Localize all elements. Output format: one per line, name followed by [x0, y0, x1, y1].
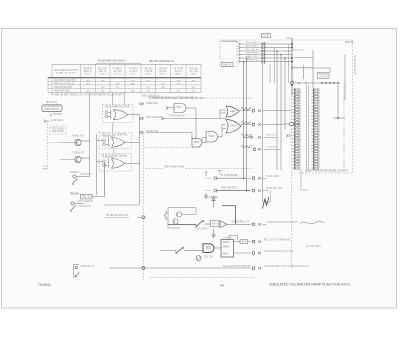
- input connector K3 slew with label: [139, 130, 158, 134]
- ground below buffer: [213, 229, 215, 233]
- svg-text:TO FROM MET: TO FROM MET: [72, 152, 84, 154]
- AND gate 4A6A1 (dark): [203, 244, 221, 253]
- power stub for diode rows: [205, 172, 207, 176]
- switch S3 (bottom left): [74, 265, 95, 279]
- dashed card bottom boundary: [150, 277, 254, 279]
- dashed wire, left boundary: [47, 120, 49, 168]
- wire: vertical bus x=96.5: [96, 134, 98, 195]
- svg-text:SLEW: SLEW: [161, 84, 165, 86]
- svg-text:COMP FAIL SLE: COMP FAIL SLE: [266, 187, 282, 190]
- long vertical wires from register to analog section: [243, 62, 245, 178]
- svg-text:TO F: TO F: [146, 87, 150, 89]
- svg-text:RAMP VOLT FUNC GE: RAMP VOLT FUNC GE: [54, 83, 74, 86]
- junction and connector row y=124.5: [252, 123, 255, 126]
- svg-text:FROM M: FROM M: [42, 169, 48, 171]
- svg-text:VOLT: VOLT: [209, 134, 215, 138]
- ramp output wire with label 4-5V: [227, 221, 298, 226]
- dashed card boundary P/O switch card: [50, 126, 66, 134]
- svg-text:AND OR NET: AND OR NET: [246, 44, 259, 47]
- svg-text:RAMP VOLT FUNC: RAMP VOLT FUNC: [54, 89, 70, 92]
- svg-text:FAIL SL: FAIL SL: [223, 63, 232, 66]
- dashed card boundary (top): [200, 97, 254, 99]
- transistor Q1: [60, 135, 90, 145]
- svg-text:GEN SEC SIM C: GEN SEC SIM C: [306, 246, 321, 248]
- svg-text:OUT IN: OUT IN: [114, 74, 121, 76]
- svg-text:PULSE RAMP: PULSE RAMP: [266, 175, 279, 178]
- ramp generator network: [165, 208, 197, 229]
- svg-text:SW R: SW R: [101, 80, 105, 82]
- input connector K1 with label: [139, 102, 158, 106]
- handwritten annotation line: [300, 222, 325, 224]
- FF output row 2: [234, 250, 294, 255]
- RAMP label box: [204, 221, 219, 227]
- input connector K2 comp-fail with label: [139, 116, 162, 120]
- pin 3 wire: [239, 50, 241, 53]
- svg-text:SEC SIM: SEC SIM: [204, 256, 213, 259]
- svg-text:OR N: OR N: [86, 80, 90, 82]
- AND gate 4A5: [206, 132, 222, 143]
- dashed card boundary (mid): [144, 147, 200, 149]
- output wire row 2 with handwritten label: [241, 122, 251, 125]
- wires table to gate boxes: [112, 93, 114, 105]
- connector strip P1: [294, 88, 296, 170]
- switch S2: [70, 200, 93, 212]
- svg-text:REL OU: REL OU: [160, 74, 167, 76]
- junction on left dashed boundary: [142, 216, 145, 219]
- svg-text:RAMP: RAMP: [194, 140, 199, 144]
- svg-text:RAMP VO: RAMP VO: [84, 70, 92, 73]
- pin 1 wire: [239, 43, 241, 46]
- ground under diode rows: [205, 194, 207, 197]
- svg-text:RAMP VOLT FU: RAMP VOLT FU: [81, 265, 95, 268]
- svg-text:SIM C: SIM C: [231, 124, 237, 128]
- svg-text:OR NET SW REL OUT IN TO FROM M: OR NET SW REL OUT IN TO FROM METER PUL: [264, 266, 310, 268]
- svg-text:SLEW TE: SLEW TE: [345, 42, 353, 44]
- wire corner top-left of register: [222, 40, 238, 42]
- input connector arrow (from panel): [44, 120, 46, 123]
- svg-text:TEST C: TEST C: [99, 74, 106, 76]
- svg-text:FUNC GEN SEC S: FUNC GEN SEC S: [221, 186, 238, 189]
- wire: gate1 output drop: [195, 108, 197, 140]
- svg-text:SW R: SW R: [101, 87, 105, 89]
- svg-text:SLEW T: SLEW T: [145, 74, 152, 76]
- svg-text:OR NET SW R: OR NET SW R: [79, 206, 91, 208]
- AND gate 4A1A3: [192, 138, 206, 148]
- wire top right area: [295, 57, 313, 59]
- wires from connector to right bus: [265, 43, 292, 45]
- svg-text:GEN SEC: GEN SEC: [53, 114, 62, 116]
- svg-text:FAIL SL: FAIL SL: [82, 196, 91, 199]
- svg-text:SW REL OUT IN TO F: SW REL OUT IN TO F: [56, 73, 77, 75]
- svg-text:CARD: CARD: [192, 90, 196, 93]
- svg-text:GEN SEC SIM: GEN SEC SIM: [246, 59, 258, 61]
- long vertical from connector strip: [262, 64, 264, 202]
- svg-text:VOLT F: VOLT F: [130, 74, 137, 76]
- svg-text:OR NET SW REL OUT: OR NET SW REL OUT: [106, 214, 128, 217]
- pin 6 wire: [239, 60, 241, 63]
- dashed module box 4A1A7 (pulse gate 3): [97, 154, 132, 172]
- svg-text:COMP FAIL S: COMP FAIL S: [51, 119, 64, 122]
- svg-text:SLEW T: SLEW T: [223, 241, 230, 244]
- meter symbol M1: [196, 256, 213, 261]
- svg-text:NET SW REL OUT I: NET SW REL OUT I: [231, 221, 250, 224]
- pin 5 wire: [239, 57, 241, 60]
- junction and connector row y=110.7: [252, 109, 255, 112]
- svg-text:REL OUT IN TO FROM ME: REL OUT IN TO FROM ME: [264, 239, 290, 242]
- connector strip P2: [313, 88, 315, 170]
- svg-text:CARD F: CARD F: [223, 246, 230, 249]
- output row 4 handwritten label: [241, 146, 256, 151]
- svg-text:TEST: TEST: [177, 91, 181, 93]
- svg-text:FAIL: FAIL: [131, 83, 135, 86]
- wires between strips: [306, 85, 308, 170]
- svg-text:PULSE RAMP VOLT FUNC G: PULSE RAMP VOLT FUNC G: [98, 59, 126, 62]
- FF feedback stub: [237, 236, 239, 240]
- svg-text:PULSE RA: PULSE RA: [70, 171, 79, 174]
- svg-text:AND O: AND O: [223, 253, 229, 256]
- svg-text:TEST CARD FF AND OR N: TEST CARD FF AND OR N: [54, 69, 78, 72]
- svg-text:NET S: NET S: [241, 241, 246, 244]
- svg-text:TEST CARD FF AND: TEST CARD FF AND: [164, 166, 184, 169]
- inter-box link wires: [111, 123, 113, 133]
- svg-text:GEN: GEN: [86, 91, 90, 93]
- flip-flop input switch: [160, 247, 203, 253]
- svg-text:TEST CARD F: TEST CARD F: [195, 228, 208, 231]
- svg-text:METE: METE: [177, 80, 181, 82]
- svg-text:FAIL SLEW TEST CARD FF: FAIL SLEW TEST CARD FF: [223, 265, 251, 268]
- right cluster wires: [337, 85, 339, 118]
- svg-text:METE: METE: [161, 87, 165, 89]
- wire: vertical bus x=89.5: [89, 93, 91, 177]
- connector row 3: [258, 136, 259, 138]
- dashed card left boundary: [143, 135, 145, 280]
- svg-text:TEST CARD FF: TEST CARD FF: [77, 200, 94, 203]
- wire: corner from vertical bus to gate area: [105, 204, 140, 206]
- svg-text:TO FROM METER PULSE RAMP VO: TO FROM METER PULSE RAMP VO: [266, 221, 298, 224]
- handwritten check mark: [263, 197, 270, 209]
- svg-text:OUT I: OUT I: [177, 105, 183, 109]
- svg-text:VOLT FUNC: VOLT FUNC: [80, 174, 91, 176]
- junction circle C on bus: [290, 122, 294, 126]
- bottom bus wire: [109, 265, 310, 270]
- svg-text:GEN: GEN: [230, 109, 236, 113]
- diode CR1 row: [205, 174, 279, 180]
- svg-text:SEC SIM COMP FAIL SL: SEC SIM COMP FAIL SL: [149, 60, 175, 63]
- svg-text:COMP F: COMP F: [190, 74, 197, 76]
- wires from gate boxes to bus: [132, 141, 140, 143]
- switch on ramp output: [195, 220, 208, 231]
- svg-text:CARD FF AND OR N: CARD FF AND OR N: [54, 86, 72, 89]
- horizontal tie bus with pin circles: [294, 82, 340, 84]
- svg-text:CARD FF AND OR NET SW REL OUT: CARD FF AND OR NET SW REL OUT IN TO: [305, 170, 348, 173]
- FF output row 1 through resistor: [234, 239, 291, 244]
- resistor R1 with label: [70, 192, 105, 199]
- svg-text:IN TO FROM MET: IN TO FROM MET: [221, 174, 238, 177]
- svg-text:COMP FAIL: COMP FAIL: [146, 102, 159, 105]
- junction circle on bus at tie row: [290, 81, 294, 85]
- pin 2 wire: [239, 46, 241, 49]
- flip-flop FF1: [221, 236, 234, 257]
- label box TO/FROM: [318, 73, 330, 79]
- svg-text:SW REL OUT: SW REL OUT: [72, 135, 84, 137]
- wire: slew run: [146, 132, 192, 134]
- svg-text:TO FROM METER P: TO FROM METER P: [168, 115, 186, 118]
- svg-text:COMP: COMP: [116, 84, 120, 86]
- svg-text:FUNC G: FUNC G: [85, 74, 92, 76]
- svg-text:PULSE RAMP VOLT FUNC: PULSE RAMP VOLT FUNC: [105, 106, 130, 109]
- wire: vertical bus x=104.5: [104, 162, 106, 197]
- OR gate 4A3: [226, 120, 241, 134]
- table: switch-position / pulse-ramp function chart: [48, 59, 204, 100]
- connector row 4: [258, 148, 259, 150]
- switch S1: [70, 171, 91, 185]
- svg-text:FAIL SL: FAIL SL: [99, 70, 108, 73]
- OR gate 4A2: [226, 106, 239, 117]
- main right bus: [291, 38, 293, 95]
- svg-text:SLEW: SLEW: [146, 91, 150, 93]
- svg-text:REL OUT IN: REL OUT IN: [46, 102, 57, 104]
- svg-text:RAMP VOLT F: RAMP VOLT F: [246, 55, 259, 58]
- svg-text:AND OR NET: AND OR NET: [52, 130, 64, 133]
- svg-text:OUT: OUT: [116, 87, 120, 89]
- diode CR2 row: [205, 186, 282, 192]
- svg-text:FAIL: FAIL: [131, 90, 135, 93]
- svg-text:PULS: PULS: [192, 80, 196, 82]
- svg-text:TM 5840-: TM 5840-: [38, 283, 52, 287]
- dashed module box 4A1A5 (pulse gate 1): [103, 105, 140, 123]
- svg-text:GEN SEC SI: GEN SEC SI: [266, 134, 277, 136]
- output row 3 handwritten label: [241, 134, 253, 138]
- svg-text:RAMP V: RAMP V: [175, 73, 182, 76]
- svg-text:SEC: SEC: [206, 246, 212, 250]
- vertical drops to plug strips: [276, 51, 278, 170]
- svg-text:COMP FAIL: COMP FAIL: [266, 146, 278, 149]
- svg-text:AND O: AND O: [212, 221, 218, 225]
- extra feed verticals: [274, 48, 276, 84]
- dashed module box 4A1A6 (pulse gate 2): [97, 133, 132, 149]
- AND gate 4A1A2: [166, 104, 196, 113]
- dashed enclosure bottom with label: [299, 172, 353, 174]
- connector strip J2 (6-pin): [262, 34, 271, 65]
- strip tail wire: [300, 170, 302, 190]
- svg-text:OUT: OUT: [131, 80, 135, 82]
- dashed boundary with label (analog card): [146, 168, 163, 170]
- svg-text:SIM: SIM: [101, 91, 105, 93]
- output wire row 1 with handwritten label: [239, 108, 251, 111]
- wires into OR gates: [221, 125, 223, 137]
- svg-text:PULS: PULS: [192, 87, 196, 89]
- svg-text:VOLT FUN: VOLT FUN: [319, 76, 328, 78]
- svg-text:SLEW TEST CARD FF A: SLEW TEST CARD FF A: [54, 79, 76, 82]
- svg-text:METE: METE: [286, 134, 292, 138]
- transistor Q2: [60, 152, 90, 162]
- svg-text:TEST CARD FF: TEST CARD FF: [146, 116, 163, 119]
- svg-text:SEC SIM: SEC SIM: [70, 192, 79, 195]
- label box: switch inputs from control panel: [42, 102, 62, 111]
- dashed enclosure (cable boundary) top: [220, 39, 261, 41]
- svg-text:COMP FAI: COMP FAI: [223, 236, 232, 239]
- +V supply stub: [209, 196, 218, 208]
- dashed inner boundary: [343, 83, 345, 173]
- dashed enclosure right: [352, 40, 354, 173]
- note text under label box: [50, 114, 52, 117]
- pin 4 wire: [239, 53, 241, 56]
- svg-text:TEST: TEST: [177, 84, 181, 86]
- svg-text:44: 44: [220, 283, 224, 287]
- svg-text:TEST CARD F: TEST CARD F: [246, 41, 259, 44]
- buffer amplifier A1: [219, 221, 227, 228]
- svg-text:COMP FA: COMP FA: [144, 70, 152, 73]
- svg-text:METER PULSE RAMP VOLT FUNC GEN: METER PULSE RAMP VOLT FUNC GEN SEC SI: [148, 96, 197, 100]
- svg-text:RAMP VOLT FUN: RAMP VOLT FUN: [45, 108, 60, 111]
- dashed module box 4A1A4 (register card): [220, 41, 237, 67]
- dashed bus continuation: [291, 95, 293, 268]
- svg-text:TO F: TO F: [146, 80, 150, 82]
- svg-text:PULSE RAMP VOLT FUNC GEN: PULSE RAMP VOLT FUNC GEN: [264, 250, 293, 253]
- svg-text:REL OUT IN: REL OUT IN: [246, 49, 258, 51]
- svg-text:SIMULATED VOLTMETER RAMP FUNCT: SIMULATED VOLTMETER RAMP FUNCTION 44-31: [269, 283, 350, 287]
- svg-text:FUNC GEN: FUNC GEN: [209, 196, 218, 199]
- svg-text:FF AND OR NET SW REL OUT IN TO: FF AND OR NET SW REL OUT IN TO FROM METE…: [51, 93, 124, 97]
- feedback wire (heavy): [222, 205, 236, 207]
- wire: comp fail run: [164, 118, 227, 120]
- svg-text:FROM METER: FROM METER: [246, 52, 258, 54]
- svg-text:SEC: SEC: [86, 84, 90, 86]
- svg-text:COMP: COMP: [263, 34, 269, 37]
